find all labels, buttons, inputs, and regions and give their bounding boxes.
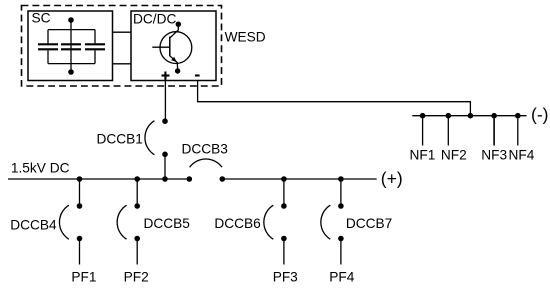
label NF4: [509, 147, 535, 162]
label WESD: [225, 29, 266, 44]
label NF3: [481, 147, 507, 162]
svg-text:DCCB5: DCCB5: [144, 216, 191, 231]
label DCCB6: [214, 216, 261, 231]
svg-text:NF3: NF3: [481, 147, 507, 162]
breaker DCCB5: [117, 203, 140, 241]
plus terminal symbol: [162, 72, 170, 80]
svg-text:PF2: PF2: [124, 270, 149, 285]
node: transistor emitter terminal: [175, 68, 180, 73]
wire: DCCB1 to positive bus: [164, 154, 166, 179]
wire: bus to DCCB6: [283, 179, 285, 206]
capacitor left (SC bank): [38, 30, 58, 64]
svg-text:NF4: NF4: [509, 147, 535, 162]
DC/DC converter box: [131, 11, 216, 81]
label (-): [531, 104, 548, 124]
wire: DCCB5 to feeder PF2: [136, 239, 138, 265]
breaker DCCB1: [145, 118, 168, 157]
node: negative feeder junction: [468, 113, 474, 119]
node NF4 tap: [515, 113, 521, 119]
svg-text:(-): (-): [531, 104, 548, 124]
svg-text:DCCB4: DCCB4: [10, 218, 57, 233]
wire: SC to DC/DC lower link: [113, 63, 132, 65]
svg-text:SC: SC: [32, 11, 51, 26]
svg-text:PF3: PF3: [273, 270, 298, 285]
wire: positive bus left segment: [8, 178, 189, 180]
label (+): [381, 168, 403, 188]
node: DCCB6 bus junction: [281, 176, 287, 182]
label DC/DC: [133, 12, 176, 27]
node NF2 tap: [446, 113, 452, 119]
label PF3: [273, 270, 298, 285]
wire: NF1 drop: [422, 116, 424, 146]
node: junction plus-wire on bus: [162, 176, 168, 182]
svg-text:DCCB7: DCCB7: [346, 216, 392, 231]
wire: bus to DCCB5: [136, 179, 138, 206]
svg-text:WESD: WESD: [225, 29, 266, 44]
label DCCB1: [97, 132, 143, 147]
label DCCB4: [10, 218, 57, 233]
svg-text:1.5kV DC: 1.5kV DC: [11, 161, 70, 176]
wire: bus to DCCB7: [340, 179, 342, 206]
wire: SC central vertical conductor: [70, 20, 72, 72]
breaker DCCB6: [264, 203, 287, 241]
svg-text:NF2: NF2: [441, 147, 467, 162]
label PF1: [71, 270, 96, 285]
transistor Q1 (BJT in circle): [152, 26, 192, 69]
node: SC bottom terminal: [68, 69, 74, 75]
svg-text:DC/DC: DC/DC: [133, 12, 176, 27]
label DCCB7: [346, 216, 392, 231]
label PF2: [124, 270, 149, 285]
wire: SC to DC/DC upper link: [113, 31, 132, 33]
WESD enclosure (dashed box): [22, 6, 222, 87]
svg-text:DCCB1: DCCB1: [97, 132, 143, 147]
svg-text:(+): (+): [381, 168, 403, 188]
capacitor middle (SC bank): [61, 44, 81, 49]
supercapacitor module box SC: [28, 11, 113, 81]
label NF1: [410, 147, 436, 162]
wire: DCCB7 to feeder PF4: [340, 239, 342, 265]
wire: NF3 drop: [493, 116, 495, 146]
label NF2: [441, 147, 467, 162]
node: DCCB4 bus junction: [77, 176, 83, 182]
label DCCB5: [144, 216, 191, 231]
svg-text:PF4: PF4: [329, 270, 354, 285]
node: SC top terminal: [68, 17, 74, 23]
wire: minus terminal feeder run: [198, 81, 471, 116]
capacitor right (SC bank): [85, 30, 105, 64]
wire: NF2 drop: [447, 116, 449, 146]
breaker DCCB3: [187, 159, 226, 182]
wire: plus terminal down to DCCB1: [164, 80, 166, 122]
svg-text:NF1: NF1: [410, 147, 436, 162]
wire: bus to DCCB4: [79, 179, 81, 206]
wire: SC top rail: [48, 29, 95, 31]
wire: positive bus right segment: [222, 178, 376, 180]
svg-text:DCCB3: DCCB3: [182, 142, 229, 157]
svg-text:PF1: PF1: [71, 270, 96, 285]
label PF4: [329, 270, 354, 285]
node: DCCB5 bus junction: [134, 176, 140, 182]
wire: NF4 drop: [517, 116, 519, 146]
label SC: [32, 11, 51, 26]
node NF1 tap: [420, 113, 426, 119]
svg-text:DCCB6: DCCB6: [214, 216, 261, 231]
label DCCB3: [182, 142, 229, 157]
breaker DCCB7: [321, 203, 344, 241]
node: DCCB7 bus junction: [338, 176, 344, 182]
label 1.5kV DC: [11, 161, 70, 176]
wire: negative bus: [412, 115, 526, 117]
node NF3 tap: [491, 113, 497, 119]
breaker DCCB4: [59, 203, 82, 241]
node: transistor collector terminal: [176, 22, 181, 27]
minus terminal symbol: [195, 74, 200, 76]
wire: DCCB6 to feeder PF3: [283, 239, 285, 265]
wire: DCCB4 to feeder PF1: [79, 239, 81, 265]
wire: SC bottom rail: [48, 63, 95, 65]
